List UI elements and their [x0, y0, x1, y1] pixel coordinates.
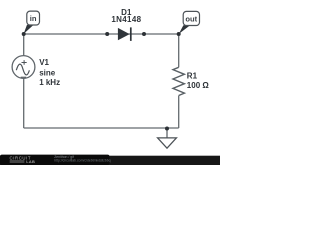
- svg-text:V1: V1: [39, 58, 49, 67]
- svg-text:1 kHz: 1 kHz: [39, 78, 60, 87]
- svg-text:1N4148: 1N4148: [111, 15, 141, 24]
- node in flag: [24, 11, 40, 34]
- label D1 value: [111, 8, 141, 24]
- node out flag: [179, 11, 200, 34]
- wire top rail: [24, 33, 179, 35]
- svg-text:http://circuitlab.com/c/debtmk: http://circuitlab.com/c/debtmkdsllzbbq: [54, 159, 110, 163]
- watermark text: [54, 155, 110, 163]
- label R1 value: [187, 71, 210, 90]
- svg-text:in: in: [30, 14, 37, 23]
- watermark bar: [0, 156, 220, 165]
- node in junction dot: [22, 32, 26, 36]
- voltage source V1: [12, 56, 35, 79]
- node out junction dot: [177, 32, 181, 36]
- wire bottom rail: [24, 127, 179, 129]
- svg-text:out: out: [185, 14, 197, 23]
- diode pin dot right: [142, 32, 146, 36]
- diode D1: [118, 27, 131, 41]
- ground: [158, 129, 177, 149]
- wire left rail lower: [23, 78, 25, 128]
- label V1 value: [39, 58, 60, 87]
- svg-text:sine: sine: [39, 68, 56, 77]
- wire left rail upper: [23, 34, 25, 56]
- wire right rail lower: [178, 96, 180, 128]
- svg-text:LAB: LAB: [26, 159, 35, 164]
- wire right rail upper: [178, 34, 180, 67]
- svg-text:100 Ω: 100 Ω: [187, 81, 210, 90]
- svg-text:R1: R1: [187, 71, 198, 80]
- resistor R1: [173, 67, 184, 95]
- watermark logo: [10, 155, 36, 164]
- diode pin dot left: [105, 32, 109, 36]
- junction ground node: [165, 127, 169, 131]
